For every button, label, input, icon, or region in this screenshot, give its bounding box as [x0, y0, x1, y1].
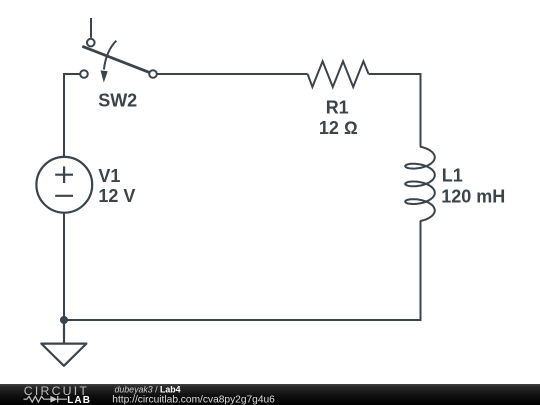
- logo diode bar: [58, 396, 67, 403]
- inductor L1: [405, 147, 435, 221]
- wire: inductor bottom to ground node: [64, 221, 421, 320]
- svg-text:LAB: LAB: [67, 395, 91, 405]
- voltage source V1: [36, 157, 92, 213]
- svg-text:SW2: SW2: [98, 91, 137, 111]
- logo diode: [50, 396, 57, 403]
- svg-text:http://circuitlab.com/cva8py2g: http://circuitlab.com/cva8py2g7g4u6: [112, 394, 275, 405]
- wire: V1 bottom lead: [63, 213, 65, 320]
- svg-text:12 V: 12 V: [98, 186, 135, 206]
- wire: switch to resistor: [157, 73, 308, 75]
- ground: [41, 320, 86, 366]
- svg-text:V1: V1: [98, 166, 120, 186]
- wire: resistor to inductor top: [369, 74, 421, 147]
- wire left-top: switch pole to V1 top: [64, 74, 80, 157]
- svg-text:L1: L1: [442, 165, 463, 185]
- svg-text:120 mH: 120 mH: [441, 187, 505, 207]
- node junction: [60, 316, 68, 324]
- svg-text:R1: R1: [326, 98, 349, 118]
- switch SW2: [80, 18, 157, 83]
- footer bar: [0, 384, 540, 405]
- resistor R1: [308, 61, 369, 87]
- svg-text:12 Ω: 12 Ω: [319, 118, 358, 138]
- logo resistor zigzag: [24, 396, 52, 402]
- svg-text:dubeyak3 / Lab4: dubeyak3 / Lab4: [115, 385, 181, 395]
